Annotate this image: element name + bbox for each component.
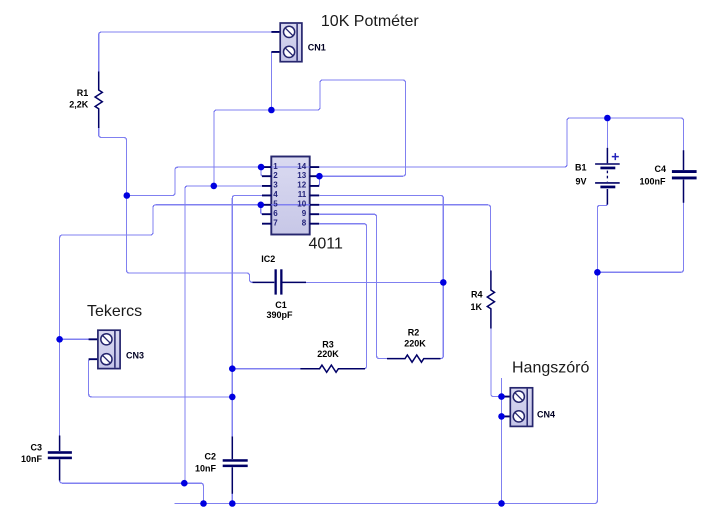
wire node (271,110) west down to pin3 node: [214, 110, 271, 186]
svg-text:3: 3: [273, 181, 278, 190]
capacitor C4: [672, 150, 697, 203]
wire pin9 east and down to R2 left: [320, 214, 389, 358]
node CN3 pin1: [56, 336, 63, 343]
node CN4 pin1: [498, 393, 505, 400]
svg-text:220K: 220K: [317, 349, 339, 359]
svg-text:R1: R1: [77, 88, 89, 98]
svg-text:10: 10: [297, 200, 306, 209]
resistor R1: [95, 72, 102, 129]
label Hangszoro: [512, 360, 589, 377]
wire node A jog down to ground rail: [184, 483, 203, 503]
label 4011: [309, 235, 344, 252]
node R3 left: [229, 365, 236, 372]
node CN4 pin2: [498, 413, 505, 420]
node pin13: [316, 173, 323, 180]
label R1 value: [69, 88, 89, 110]
svg-text:14: 14: [297, 162, 306, 171]
wire ground node east and up to C4 bottom: [597, 203, 683, 273]
svg-text:220K: 220K: [404, 339, 426, 349]
svg-text:4011: 4011: [309, 235, 344, 252]
wire stub above CN4 pin1 node: [501, 378, 503, 397]
op-amp U1 body (4011 IC): [271, 157, 309, 235]
wire R3 left to pin4 vertical: [232, 368, 301, 370]
node CN3 pin2 to pin4 net: [229, 394, 236, 401]
svg-text:13: 13: [297, 171, 306, 180]
IC pin numbers left 1-7: [273, 162, 278, 228]
battery B1: [595, 148, 620, 205]
svg-text:6: 6: [273, 209, 278, 218]
wire pin8 east and down to R3 right: [320, 224, 367, 369]
wire CN4 vertical down to ground rail: [502, 397, 505, 504]
svg-text:9: 9: [302, 209, 307, 218]
svg-text:9V: 9V: [575, 177, 586, 187]
resistor R3: [300, 365, 365, 372]
wire pin3 row west and long left vertical to bottom node: [185, 186, 263, 483]
wire pin4 west and down to C2 top: [232, 195, 262, 437]
svg-text:1K: 1K: [470, 302, 482, 312]
node battery bottom GND: [594, 269, 601, 276]
svg-text:11: 11: [298, 190, 307, 199]
svg-text:5: 5: [273, 200, 278, 209]
svg-text:Hangszóró: Hangszóró: [512, 360, 589, 377]
node C1 right pin11 R2: [440, 279, 447, 286]
wire node (127,195) down to C1 left: [127, 196, 255, 283]
wire R1 top to CN1 pin1: [99, 32, 272, 72]
svg-text:10K Potméter: 10K Potméter: [321, 13, 420, 30]
svg-text:R4: R4: [471, 290, 483, 300]
svg-text:CN3: CN3: [126, 350, 144, 360]
svg-text:2,2K: 2,2K: [69, 100, 89, 110]
node rail C2: [229, 500, 236, 507]
capacitor C2: [223, 437, 248, 494]
IC pin stubs right: [310, 167, 320, 224]
wire pin13 hook to pin12: [316, 176, 319, 186]
svg-text:390pF: 390pF: [266, 310, 293, 320]
wire battery top lead drop: [606, 118, 608, 148]
svg-text:4: 4: [273, 190, 278, 199]
node CN1 pin2 junction: [268, 107, 275, 114]
wire R1 bottom to node at (127,195): [99, 127, 127, 196]
resistor R4: [487, 271, 494, 329]
svg-text:C1: C1: [275, 300, 287, 310]
svg-text:10nF: 10nF: [195, 464, 217, 474]
wire node (127,195) to pin1 row then VCC rail to C4 top: [127, 118, 684, 196]
wire C1 right to node (443,282): [305, 281, 443, 283]
IC pin stubs left: [262, 167, 271, 224]
wire battery bottom jog down and ground rail west: [175, 204, 608, 504]
wire node (271,110) east over the top to pin13: [271, 80, 405, 176]
label CN3: [126, 350, 144, 360]
svg-text:IC2: IC2: [261, 254, 275, 264]
label 10K Potmeter: [321, 13, 420, 30]
capacitor C3: [48, 436, 72, 481]
label IC2: [261, 254, 275, 264]
node pin1: [258, 164, 265, 171]
wire C2 bottom to ground rail: [231, 493, 233, 504]
connector CN1: [271, 23, 302, 62]
label R3 value: [317, 340, 339, 360]
node rail CN4: [498, 500, 505, 507]
label B1 value: [575, 163, 587, 187]
svg-text:C4: C4: [654, 164, 666, 174]
svg-text:Tekercs: Tekercs: [87, 303, 142, 320]
svg-text:B1: B1: [575, 163, 587, 173]
svg-text:R2: R2: [408, 328, 420, 338]
wire CN1 pin2 down to node: [270, 52, 272, 110]
svg-text:R3: R3: [322, 340, 334, 350]
svg-text:C3: C3: [30, 443, 42, 453]
label C2 value: [195, 452, 217, 474]
resistor R2: [387, 355, 441, 362]
wire pin1 hook to pin2: [261, 167, 264, 176]
wire CN3 pin1 node east: [60, 338, 89, 340]
svg-text:12: 12: [297, 181, 306, 190]
svg-text:8: 8: [302, 218, 307, 227]
wire CN3 pin2 down and east to pin4 vertical: [89, 359, 233, 397]
label C1 value: [266, 300, 293, 320]
node A C3 bottom: [181, 480, 188, 487]
label CN1: [308, 42, 326, 52]
svg-text:2: 2: [273, 171, 278, 180]
svg-text:1: 1: [273, 162, 278, 171]
svg-text:CN4: CN4: [537, 410, 555, 420]
node pin5: [258, 202, 265, 209]
connector CN3: [89, 330, 121, 368]
capacitor C1: [253, 269, 307, 294]
label R4 value: [470, 290, 482, 313]
node pin3: [211, 183, 218, 190]
label Tekercs: [87, 303, 142, 320]
wire CN3 pin1 up and across to pin5 row then to R4 top: [60, 205, 491, 339]
svg-text:C2: C2: [204, 452, 216, 462]
label C4 value: [639, 164, 666, 187]
label CN4: [537, 410, 555, 420]
svg-text:7: 7: [273, 218, 278, 227]
wire CN3 node down to C3 and C3 bottom east to node A: [60, 339, 185, 483]
node rail B: [200, 500, 207, 507]
wire R4 bottom to CN4 pin1 node: [491, 328, 505, 397]
wire pin11 east and down through node to R2 right: [320, 195, 444, 358]
node R1 bottom: [124, 192, 131, 199]
wire pin5 hook to pin6: [261, 205, 265, 214]
svg-text:100nF: 100nF: [639, 177, 666, 187]
IC pin numbers right 14-8: [297, 162, 306, 228]
label C3 value: [21, 443, 43, 465]
svg-text:10nF: 10nF: [21, 454, 43, 464]
connector CN4: [505, 388, 533, 427]
svg-text:CN1: CN1: [308, 42, 326, 52]
label R2 value: [404, 328, 426, 349]
node battery top VCC: [604, 115, 611, 122]
